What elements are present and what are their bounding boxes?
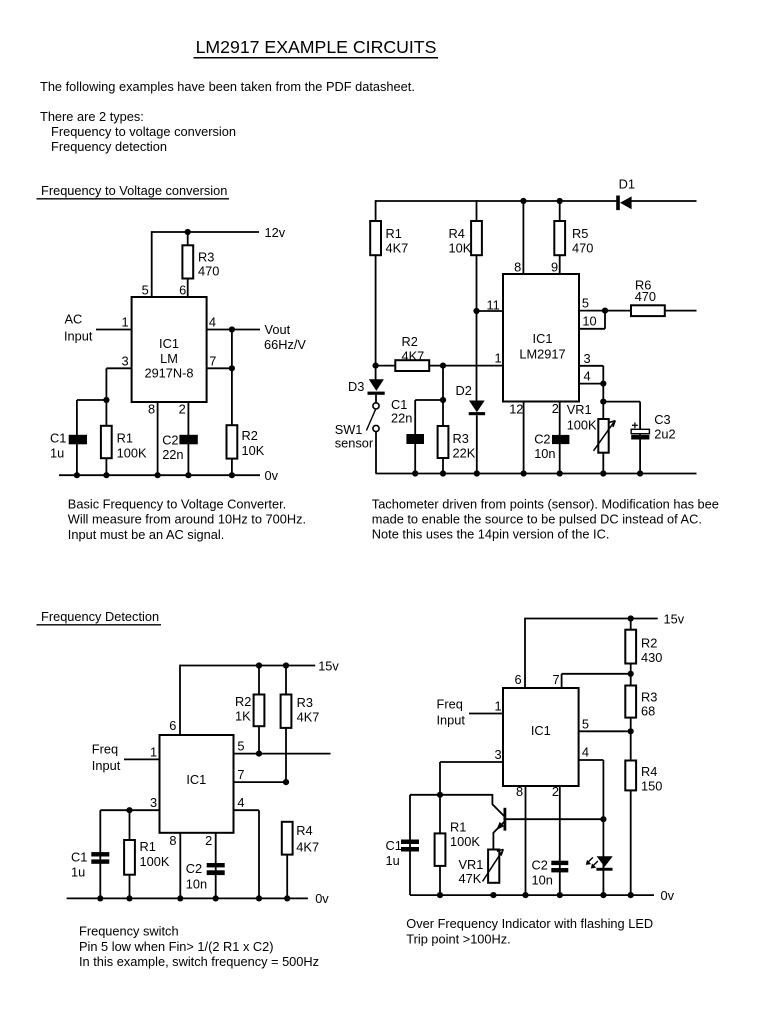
- wire switch to ground: [375, 432, 377, 474]
- wire R4 vertical tail: [286, 855, 288, 899]
- svg-text:IC1: IC1: [531, 723, 551, 738]
- svg-text:made to enable the source to b: made to enable the source to be pulsed D…: [372, 511, 702, 526]
- junction R3 vertical node: [440, 397, 446, 403]
- resistor R4: [449, 221, 482, 256]
- capacitor C1: [71, 850, 109, 880]
- svg-text:15v: 15v: [318, 658, 339, 673]
- wire pin7: [234, 781, 287, 783]
- capacitor C2: [186, 861, 225, 892]
- svg-text:C2: C2: [532, 858, 548, 873]
- svg-text:AC: AC: [65, 312, 83, 327]
- wire pin3: [579, 365, 603, 367]
- caption circuit 1: [68, 497, 306, 542]
- junction D2/ground: [474, 470, 480, 476]
- wire D3 to switch: [375, 395, 377, 403]
- diode D3: [348, 379, 385, 395]
- svg-text:sensor: sensor: [335, 435, 374, 450]
- svg-text:4: 4: [582, 745, 589, 760]
- svg-text:0v: 0v: [661, 888, 675, 903]
- junction pin8/ground: [155, 472, 161, 478]
- wire 15v rail: [180, 665, 315, 667]
- wire pin2/C2 vertical: [215, 833, 217, 899]
- wire pin2/C2 vertical: [559, 786, 561, 895]
- wire 0v ground rail: [376, 473, 697, 475]
- svg-text:10n: 10n: [186, 877, 207, 892]
- junction R3/R4/pin5: [628, 728, 634, 734]
- svg-text:C1: C1: [50, 430, 66, 445]
- resistor R5: [554, 221, 593, 256]
- junction rail/R3: [283, 662, 289, 668]
- svg-text:4K7: 4K7: [386, 241, 409, 256]
- wire pin10 horizontal: [579, 328, 605, 330]
- svg-text:7: 7: [237, 767, 244, 782]
- svg-text:1u: 1u: [386, 853, 400, 868]
- svg-text:2917N-8: 2917N-8: [144, 366, 193, 381]
- wire pin3: [106, 367, 131, 369]
- wire pin3 vertical to node: [105, 368, 107, 475]
- svg-text:R4: R4: [296, 823, 312, 838]
- svg-text:2: 2: [552, 401, 559, 416]
- svg-text:430: 430: [641, 650, 662, 665]
- wire R1 vertical from rail: [375, 200, 377, 379]
- node Vout label: [264, 322, 306, 352]
- svg-text:5: 5: [142, 283, 149, 298]
- wire pin4: [579, 383, 603, 385]
- wire C1 vertical: [76, 400, 78, 475]
- junction rail/pin8: [520, 198, 526, 204]
- svg-text:7: 7: [553, 672, 560, 687]
- svg-text:4: 4: [237, 795, 244, 810]
- svg-text:Will measure from around 10Hz: Will measure from around 10Hz to 700Hz.: [68, 512, 306, 527]
- junction C1/ground: [97, 895, 103, 901]
- junction pin4/vertical: [229, 326, 235, 332]
- svg-text:12v: 12v: [265, 225, 286, 240]
- wire pin1 node down to C1/R3 node: [442, 366, 444, 474]
- wire pin5: [579, 730, 631, 732]
- wire 15v rail: [525, 618, 658, 620]
- wire pin3/pin4 vertical to VR1: [602, 366, 604, 474]
- svg-text:R3: R3: [641, 690, 657, 705]
- svg-text:6: 6: [179, 283, 186, 298]
- wire pin6 vertical: [524, 618, 526, 688]
- wire pin4 vertical to ground: [258, 810, 260, 898]
- junction C1/ground: [74, 472, 80, 478]
- capacitor C1: [386, 838, 420, 868]
- wire C3 vertical: [639, 402, 641, 474]
- junction C3 branch: [600, 399, 606, 405]
- junction LED/ground: [600, 892, 606, 898]
- svg-text:In this example, switch freque: In this example, switch frequency = 500H…: [79, 954, 319, 969]
- transistor Q1: [492, 794, 505, 850]
- junction R1/ground: [437, 892, 443, 898]
- svg-text:3: 3: [122, 353, 129, 368]
- svg-text:22n: 22n: [391, 410, 412, 425]
- capacitor C2: [532, 858, 569, 888]
- svg-text:2: 2: [552, 784, 559, 799]
- svg-text:7: 7: [209, 353, 216, 368]
- svg-text:2: 2: [179, 402, 186, 417]
- svg-text:R1: R1: [117, 430, 133, 445]
- svg-text:R1: R1: [450, 820, 466, 835]
- svg-text:5: 5: [237, 739, 244, 754]
- svg-text:10n: 10n: [532, 873, 553, 888]
- wire pin1 input: [124, 758, 160, 760]
- svg-text:Basic Frequency to Voltage Con: Basic Frequency to Voltage Converter.: [68, 497, 286, 512]
- junction C2/ground: [557, 470, 563, 476]
- resistor R1: [435, 820, 481, 866]
- svg-text:LM2917: LM2917: [519, 346, 565, 361]
- diode D2: [456, 383, 486, 415]
- wire R2 vertical: [258, 665, 260, 754]
- svg-text:VR1: VR1: [459, 857, 484, 872]
- junction R4 column/ground: [628, 892, 634, 898]
- svg-text:Trip point >100Hz.: Trip point >100Hz.: [406, 931, 510, 946]
- resistor R4: [282, 822, 319, 855]
- IC op-amp U1 IC1 LM2917N-8: [132, 297, 207, 402]
- svg-text:R1: R1: [140, 839, 156, 854]
- svg-text:Pin 5 low when Fin> 1/(2 R1 x: Pin 5 low when Fin> 1/(2 R1 x C2): [79, 939, 274, 954]
- section heading: Frequency Detection: [37, 609, 162, 625]
- svg-text:Freq: Freq: [92, 742, 118, 757]
- wire pin8 vertical: [179, 833, 181, 899]
- resistor R2: [625, 630, 662, 665]
- resistor R2: [227, 425, 265, 458]
- svg-text:5: 5: [582, 716, 589, 731]
- LED D1: [586, 856, 613, 871]
- resistor R2: [235, 694, 264, 726]
- svg-text:100K: 100K: [450, 834, 480, 849]
- svg-text:0v: 0v: [315, 891, 329, 906]
- wire R3 vertical: [285, 665, 287, 783]
- svg-text:LM: LM: [160, 351, 178, 366]
- svg-text:Frequency to voltage conversio: Frequency to voltage conversion: [51, 124, 236, 139]
- junction C3/ground: [637, 470, 643, 476]
- wire R6 to right: [665, 310, 697, 312]
- junction R1/ground: [126, 895, 132, 901]
- capacitor C2: [162, 433, 198, 462]
- svg-text:22K: 22K: [453, 446, 476, 461]
- junction rail/R2: [256, 662, 262, 668]
- wire R4 vertical from rail: [476, 200, 478, 401]
- wire pin10 vertical step: [604, 311, 606, 329]
- potentiometer VR1: [567, 402, 616, 453]
- svg-text:1u: 1u: [71, 865, 85, 880]
- junction pin4/vertical: [600, 381, 606, 387]
- junction R4/pin11: [473, 308, 479, 314]
- wire 0v ground rail: [67, 897, 308, 899]
- title: [194, 37, 439, 58]
- svg-text:68: 68: [641, 704, 655, 719]
- svg-text:R4: R4: [641, 764, 657, 779]
- svg-text:R2: R2: [242, 428, 258, 443]
- resistor R3: [281, 695, 320, 728]
- svg-text:100K: 100K: [567, 418, 597, 433]
- svg-text:IC1: IC1: [186, 772, 206, 787]
- svg-text:8: 8: [516, 784, 523, 799]
- svg-text:1: 1: [495, 699, 502, 714]
- wire pin7 vertical: [561, 674, 563, 688]
- svg-text:Frequency Detection: Frequency Detection: [41, 609, 159, 624]
- svg-text:66Hz/V: 66Hz/V: [264, 337, 306, 352]
- diode D1: [616, 176, 635, 210]
- IC U1 IC1 LM2917: [503, 274, 579, 402]
- junction VR1/ground: [490, 892, 496, 898]
- svg-text:9: 9: [551, 259, 558, 274]
- wire 0v ground rail: [410, 894, 654, 896]
- wire pin4/LED vertical: [602, 760, 604, 895]
- svg-text:470: 470: [635, 289, 656, 304]
- svg-text:Frequency detection: Frequency detection: [51, 139, 167, 154]
- svg-text:5: 5: [582, 296, 589, 311]
- junction R2/R3/pin7: [628, 671, 634, 677]
- junction R1/pin1: [373, 363, 379, 369]
- svg-text:Note this uses the 14pin versi: Note this uses the 14pin version of the …: [372, 527, 610, 542]
- resistor R4: [625, 761, 662, 794]
- junction pin7/vertical: [229, 365, 235, 371]
- svg-text:6: 6: [515, 672, 522, 687]
- svg-text:0v: 0v: [265, 468, 279, 483]
- svg-text:R4: R4: [449, 226, 465, 241]
- svg-text:R3: R3: [453, 431, 469, 446]
- svg-text:The following examples have be: The following examples have been taken f…: [40, 79, 415, 94]
- wire pin1 row: [376, 365, 503, 367]
- wire pin2/C2 vertical: [559, 402, 561, 475]
- wire right column vertical: [630, 618, 632, 896]
- junction pin5/pin10: [602, 308, 608, 314]
- svg-text:R1: R1: [386, 226, 402, 241]
- intro paragraph: [40, 79, 415, 154]
- svg-text:1: 1: [122, 315, 129, 330]
- svg-text:D3: D3: [348, 379, 364, 394]
- wire D2 to ground: [476, 415, 478, 473]
- wire pin1 input: [469, 713, 503, 715]
- svg-text:IC1: IC1: [159, 336, 179, 351]
- switch SW1 sensor: [335, 403, 379, 451]
- svg-text:R3: R3: [198, 250, 214, 265]
- svg-text:1K: 1K: [235, 709, 251, 724]
- svg-text:There are 2 types:: There are 2 types:: [40, 109, 144, 124]
- capacitor C1: [391, 397, 424, 444]
- wire top rail left of D1: [376, 200, 617, 202]
- wire node to C1 horizontal: [77, 399, 107, 401]
- resistor R2: [395, 334, 429, 371]
- svg-text:3: 3: [150, 795, 157, 810]
- junction pin4/ground: [256, 895, 262, 901]
- wire pin2/C2 vertical: [187, 402, 189, 475]
- section heading: Frequency to Voltage conversion: [37, 183, 230, 199]
- svg-text:10K: 10K: [449, 241, 472, 256]
- svg-text:100K: 100K: [117, 445, 147, 460]
- junction rail/R2: [628, 615, 634, 621]
- svg-text:LM2917 EXAMPLE CIRCUITS: LM2917 EXAMPLE CIRCUITS: [196, 37, 437, 57]
- resistor R1: [124, 839, 170, 875]
- svg-text:12: 12: [509, 401, 523, 416]
- wire C1 branch horizontal: [410, 794, 492, 796]
- wire R5 vertical from rail: [559, 200, 561, 274]
- node AC Input label: [64, 312, 93, 344]
- wire pin7: [207, 367, 232, 369]
- svg-text:4K7: 4K7: [296, 840, 319, 855]
- junction R1/C1 branch: [437, 792, 443, 798]
- svg-text:4K7: 4K7: [297, 710, 320, 725]
- resistor R3: [625, 686, 657, 719]
- wire 12v rail: [152, 231, 259, 233]
- svg-text:Frequency switch: Frequency switch: [79, 924, 179, 939]
- junction C2/ground: [213, 895, 219, 901]
- junction pin12/ground: [521, 470, 527, 476]
- junction base/LED vertical: [600, 816, 606, 822]
- wire pin12 vertical: [523, 402, 525, 475]
- junction R4/ground: [284, 895, 290, 901]
- wire pin3: [440, 761, 503, 763]
- svg-text:R2: R2: [402, 334, 418, 349]
- svg-text:Input must be an AC signal.: Input must be an AC signal.: [68, 527, 225, 542]
- resistor R3: [438, 426, 476, 461]
- svg-text:15v: 15v: [664, 611, 685, 626]
- node Freq Input label: [92, 742, 121, 774]
- junction pin8/ground: [177, 895, 183, 901]
- IC U1 IC1: [160, 735, 234, 833]
- wire pin5: [579, 310, 631, 312]
- resistor R1: [370, 221, 408, 256]
- caption circuit 4: [406, 916, 653, 946]
- svg-text:D1: D1: [619, 176, 635, 191]
- svg-text:Input: Input: [437, 713, 466, 728]
- wire pin5: [234, 753, 331, 755]
- svg-text:Over Frequency Indicator with: Over Frequency Indicator with flashing L…: [406, 916, 653, 931]
- svg-text:VR1: VR1: [567, 402, 592, 417]
- wire top rail right of D1: [631, 200, 696, 202]
- junction VR1/ground: [600, 470, 606, 476]
- wire pin6/R3 vertical: [187, 231, 189, 297]
- svg-text:3: 3: [495, 747, 502, 762]
- svg-text:10K: 10K: [242, 443, 265, 458]
- svg-text:100K: 100K: [140, 854, 170, 869]
- svg-text:47K: 47K: [459, 871, 482, 886]
- svg-text:Frequency to Voltage conversio: Frequency to Voltage conversion: [41, 183, 227, 198]
- svg-text:11: 11: [487, 298, 500, 313]
- resistor R6: [631, 278, 665, 317]
- capacitor C3 polarized: [631, 412, 675, 442]
- svg-text:R5: R5: [572, 226, 588, 241]
- svg-text:470: 470: [572, 241, 593, 256]
- junction pin3/R1: [126, 807, 132, 813]
- potentiometer VR1: [459, 849, 504, 886]
- wire pin8 vertical: [157, 402, 159, 475]
- svg-text:2u2: 2u2: [654, 427, 675, 442]
- svg-text:R2: R2: [641, 636, 657, 651]
- svg-text:C2: C2: [162, 433, 178, 448]
- wire C1 vertical: [414, 400, 416, 474]
- svg-text:C2: C2: [534, 432, 550, 447]
- wire pin4: [234, 809, 260, 811]
- wire pin7 horizontal: [562, 673, 631, 675]
- caption circuit 2: [372, 496, 719, 541]
- junction C1/ground: [412, 470, 418, 476]
- wire pin4 to Vout: [207, 329, 260, 331]
- svg-text:150: 150: [641, 778, 662, 793]
- wire pin4: [579, 759, 604, 761]
- svg-text:Input: Input: [64, 329, 93, 344]
- junction rail/R3: [185, 229, 191, 235]
- svg-text:R2: R2: [235, 694, 251, 709]
- svg-text:Freq: Freq: [437, 697, 463, 712]
- wire pin3: [100, 809, 159, 811]
- wire pin8 vertical: [522, 200, 524, 274]
- svg-text:C1: C1: [386, 838, 402, 853]
- svg-text:470: 470: [198, 264, 219, 279]
- svg-text:4: 4: [584, 368, 591, 383]
- svg-text:R3: R3: [297, 695, 313, 710]
- wire base to LED column: [506, 818, 604, 820]
- junction pin1/R3: [440, 363, 446, 369]
- svg-text:8: 8: [169, 833, 176, 848]
- wire Vout/R2 vertical: [231, 330, 233, 476]
- svg-text:2: 2: [205, 833, 212, 848]
- svg-text:4: 4: [209, 315, 216, 330]
- svg-text:8: 8: [148, 402, 155, 417]
- wire C1 branch horizontal: [415, 399, 443, 401]
- node Freq Input label: [437, 697, 466, 728]
- svg-text:C1: C1: [71, 850, 87, 865]
- junction C2/ground: [557, 892, 563, 898]
- svg-text:6: 6: [169, 718, 176, 733]
- svg-text:Vout: Vout: [265, 322, 291, 337]
- svg-text:IC1: IC1: [533, 331, 553, 346]
- resistor R1: [101, 426, 147, 461]
- junction C2/ground: [185, 472, 191, 478]
- svg-text:4K7: 4K7: [402, 349, 425, 364]
- wire C1 vertical: [409, 795, 411, 895]
- wire pin5 vertical: [151, 231, 153, 297]
- svg-text:Tachometer driven from points: Tachometer driven from points (sensor). …: [372, 496, 719, 511]
- svg-text:10: 10: [582, 314, 596, 329]
- svg-text:D2: D2: [456, 383, 472, 398]
- wire R1 vertical: [129, 810, 131, 898]
- junction rail/R5: [557, 198, 563, 204]
- wire C3 branch horizontal: [603, 401, 640, 403]
- junction pin3 node: [103, 397, 109, 403]
- svg-text:1: 1: [495, 351, 502, 366]
- svg-text:C2: C2: [186, 861, 202, 876]
- wire pin8 vertical: [525, 786, 527, 895]
- junction R3/ground: [440, 470, 446, 476]
- svg-text:C3: C3: [654, 412, 670, 427]
- junction R1/ground: [103, 472, 109, 478]
- svg-text:3: 3: [584, 351, 591, 366]
- svg-text:8: 8: [514, 259, 521, 274]
- wire pin11: [477, 310, 504, 312]
- IC U1 IC1: [503, 688, 579, 786]
- capacitor C2: [534, 432, 569, 461]
- junction R2/ground: [229, 472, 235, 478]
- junction pin8/ground: [522, 892, 528, 898]
- wire R1 vertical: [439, 762, 441, 895]
- svg-text:10n: 10n: [534, 446, 555, 461]
- resistor R3: [182, 245, 219, 278]
- svg-text:Input: Input: [92, 758, 121, 773]
- capacitor C1: [50, 430, 87, 460]
- wire 0v ground rail: [59, 474, 260, 476]
- svg-text:22n: 22n: [162, 447, 183, 462]
- wire pin6 vertical: [179, 665, 181, 735]
- caption circuit 3: [79, 924, 319, 969]
- svg-text:1u: 1u: [50, 445, 64, 460]
- junction R3/pin7/R4: [283, 779, 289, 785]
- wire pin1 input: [96, 329, 132, 331]
- svg-text:1: 1: [150, 744, 157, 759]
- junction R2/pin5: [256, 751, 262, 757]
